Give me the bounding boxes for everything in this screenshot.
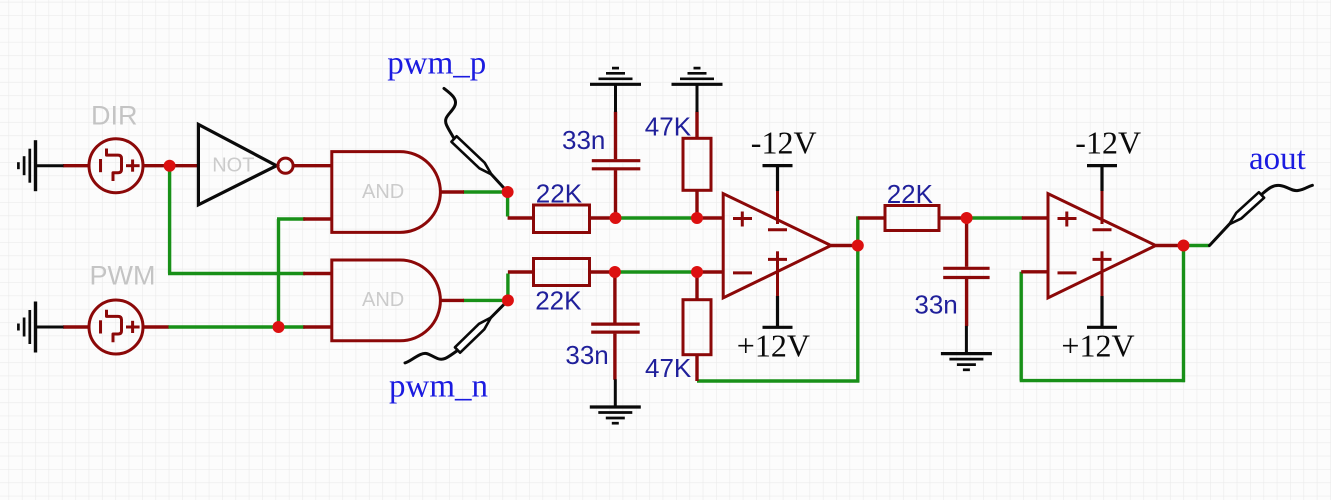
svg-text:33n: 33n xyxy=(914,289,957,319)
svg-text:47K: 47K xyxy=(645,111,692,141)
svg-text:22K: 22K xyxy=(887,179,934,209)
svg-text:AND: AND xyxy=(362,289,404,311)
svg-text:47K: 47K xyxy=(645,353,692,383)
svg-text:aout: aout xyxy=(1249,141,1306,177)
svg-text:-12V: -12V xyxy=(751,124,817,160)
svg-text:PWM: PWM xyxy=(90,260,156,290)
svg-text:NOT: NOT xyxy=(212,154,254,176)
svg-text:AND: AND xyxy=(362,181,404,203)
svg-text:pwm_p: pwm_p xyxy=(387,46,486,82)
svg-text:22K: 22K xyxy=(536,179,583,209)
svg-text:-12V: -12V xyxy=(1075,124,1141,160)
svg-text:33n: 33n xyxy=(562,125,605,155)
svg-text:22K: 22K xyxy=(535,286,582,316)
svg-text:+12V: +12V xyxy=(1061,328,1134,364)
svg-text:DIR: DIR xyxy=(91,101,138,131)
svg-text:pwm_n: pwm_n xyxy=(389,369,488,405)
svg-text:33n: 33n xyxy=(565,340,608,370)
svg-text:+12V: +12V xyxy=(737,328,810,364)
